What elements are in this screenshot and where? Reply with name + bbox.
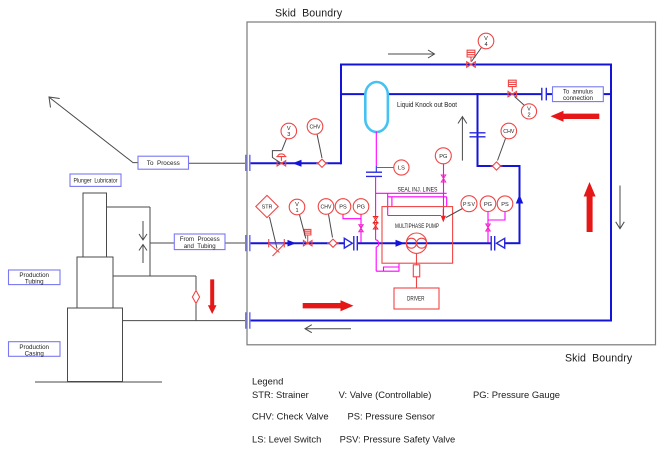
leader V1 [300,215,306,239]
ground line [35,381,162,383]
svg-text:PSV: Pressure Safety Valve: PSV: Pressure Safety Valve [340,434,456,445]
svg-text:Casing: Casing [25,350,45,357]
wire suction PG stem [360,214,362,242]
wire recycle drop x=477.5 [477,93,479,167]
valve V4 body [467,50,476,67]
svg-text:CHV: CHV [310,125,322,131]
leader PSV [446,209,463,218]
wire header drop 4 [446,197,448,207]
svg-text:connection: connection [563,95,593,102]
tag circle V1 [289,199,305,215]
svg-text:PS: Pressure Sensor: PS: Pressure Sensor [348,411,436,422]
injection point arrow into pump [442,209,444,217]
wire casing line to skid [123,320,247,322]
flow arrow right on suction line [288,240,297,247]
svg-text:CHV: Check Valve: CHV: Check Valve [252,411,329,422]
box From Process and Tubing [174,234,225,250]
svg-text:STR: Strainer: STR: Strainer [252,389,309,400]
wire lubricator to riser [107,206,151,208]
suction reducer cone [344,238,352,248]
wire right downcomer x=611 [610,64,612,322]
tag circle PS discharge [497,196,513,212]
box To Process [138,156,189,169]
arrow down (right side) [619,186,621,229]
box To annulus connection [553,87,604,102]
wire header drop 1 [387,193,389,215]
svg-text:DRIVER: DRIVER [407,296,425,303]
wire annulus flange to box [547,93,553,95]
check valve diamond on tubing drop [192,291,199,304]
wire header drop 2 [391,197,393,207]
flow arrow up on discharge riser [516,195,523,204]
svg-text:Legend: Legend [252,376,283,387]
tag circle PG top [435,148,451,164]
skid flange at to-process crossing [246,155,250,171]
wire From-Process box to skid edge [225,242,246,244]
flange pair at discharge expander [491,236,495,251]
wire to-process line (inside skid) [250,162,341,164]
svg-text:PS: PS [339,205,347,211]
wire header drop 3 [443,193,445,216]
svg-text:and Tubing: and Tubing [184,243,217,250]
leader V3 [282,139,287,151]
valve double-X on boot drain [373,217,377,230]
svg-text:PG: PG [439,154,447,160]
box Production Tubing [9,270,61,285]
svg-text:Liquid Knock out Boot: Liquid Knock out Boot [397,102,457,109]
wire pipe jump over suction line [376,240,379,247]
skid boundary rectangle [247,22,656,345]
wire pump internal injection line [388,215,441,217]
arrow to flare (diagonal up-left) [50,98,139,163]
leader CHV (to-process) [317,134,322,158]
box Plunger Lubricator [70,174,121,186]
check valve CHV diamond on recycle line [492,162,500,170]
wire riser vertical [149,207,151,276]
svg-text:1: 1 [295,208,298,214]
check valve CHV stub on recycle line [491,165,503,167]
wire suction through pump [358,242,492,244]
leader CHV (suction) [329,214,333,237]
liquid knock out boot vessel [365,82,388,132]
wire boot drain blue segment [375,166,377,172]
valve V2 body [508,80,517,97]
red arrow right (bottom) [303,300,354,311]
svg-text:V: Valve (Controllable): V: Valve (Controllable) [339,389,432,400]
coupling block [413,265,419,277]
wire return loop notch [384,267,400,271]
tag circle PG suction [353,199,369,215]
flange pair at suction reducer [354,236,358,251]
wire tubing outlet horizontal [113,275,196,277]
arrow up (beside boot) [461,117,463,161]
wire boot outlet to tee [388,93,479,95]
wire LS leader [376,167,393,169]
valve X on suction PG stem [359,225,363,232]
wire suction PS leader [343,214,361,218]
wire To-Process box to skid edge [189,162,247,164]
check valve CHV stub on to-process line [316,162,328,164]
svg-text:STR: STR [262,205,273,211]
tag circle PG discharge [480,196,496,212]
pump circle [406,233,426,253]
black hook at valve V3 [272,151,281,163]
wellhead lubricator tube [83,193,107,257]
arrow up (lubricator) [142,245,144,264]
wire tubing drop vertical [195,276,197,321]
box Production Casing [9,342,61,357]
tag circle V3 [281,123,297,139]
wire discharge PS leader [488,212,505,220]
flange pair before annulus box [542,88,547,101]
svg-text:Skid Boundry: Skid Boundry [275,8,343,20]
svg-text:PG: PG [484,202,492,208]
svg-text:CHV: CHV [503,129,515,135]
leader V4 [472,48,482,62]
wire seal header lower line [388,196,447,198]
tag circle V4 [478,33,494,49]
svg-text:To Process: To Process [147,160,180,167]
skid flange at bottom inlet crossing [246,312,250,328]
leader STR [270,217,278,249]
driver box [394,288,439,309]
leader CHV (recycle) [498,139,506,161]
wire discharge after expander [505,242,521,244]
svg-text:MULTIPHASE PUMP: MULTIPHASE PUMP [395,223,439,230]
wire bottom inlet line [250,320,612,322]
wellhead tubing head spool [77,257,113,308]
wire discharge PG stem [487,212,489,243]
valve X on discharge PG stem [486,224,490,231]
svg-text:LS: LS [398,166,405,172]
tag circle CHV to-process [307,119,323,135]
svg-text:SEAL INJ. LINES: SEAL INJ. LINES [398,187,438,194]
svg-text:Tubing: Tubing [25,279,44,286]
wire drain to return loop [375,247,377,271]
tag circle V2 [521,104,536,119]
wire drain below spectacle to header [375,176,377,218]
wire riser to From-Process box [150,242,174,244]
red arrow up (right side) [584,182,596,232]
pump shaft upper [416,253,418,264]
tag circle PSV [461,196,477,212]
svg-text:PG: Pressure Gauge: PG: Pressure Gauge [473,389,560,400]
tag circle CHV suction [318,199,334,215]
spectacle blind on boot drain [366,172,382,176]
tag circle LS [394,160,409,175]
check valve CHV stub on suction line [327,242,339,244]
pump lobe left [406,238,416,248]
wire boot inlet [341,93,366,95]
arrow right (top of skid) [388,53,434,55]
svg-text:CHV: CHV [321,205,333,211]
pump shaft lower [416,277,418,288]
strainer ticks and basket [269,239,285,256]
wire discharge riser x=519.5 [519,165,521,243]
tag circle PS suction [335,199,351,215]
red arrow left (annulus) [551,111,600,122]
wire top header line [340,64,612,66]
svg-text:PS: PS [501,202,509,208]
wire boot drain stem [375,132,377,167]
flow arrow right into pump [396,240,405,247]
pump lobe right [417,238,427,248]
arrow left (bottom line) [306,328,351,330]
check valve CHV diamond on suction line [329,239,337,247]
wire return loop bottom [376,264,399,272]
pump casing box [382,207,453,264]
tag diamond STR [256,195,278,217]
wire seal header upper line [376,192,447,194]
svg-text:2: 2 [527,112,530,118]
arrow down (lubricator) [142,221,144,240]
wire tee to V2 and annulus flange [479,93,542,95]
wire drain header to pipe jump [375,227,377,240]
valve V1 body [303,229,312,246]
skid flange at suction crossing [246,235,250,251]
valve V3 body [276,154,286,166]
svg-text:PSV: PSV [463,202,476,208]
wire annulus box to right downcomer [603,93,612,95]
discharge expander cone [497,238,505,248]
leader V2 [515,97,525,106]
red arrow down (tubing drop) [208,279,217,314]
svg-text:3: 3 [287,132,290,138]
svg-text:4: 4 [484,42,487,48]
wire suction line [250,242,345,244]
svg-text:LS: Level Switch: LS: Level Switch [252,434,321,445]
tag circle CHV recycle [501,123,517,139]
check valve CHV diamond on to-process line [318,159,326,167]
wire riser left vertical x=341 [340,64,342,165]
svg-text:Skid Boundry: Skid Boundry [565,353,633,365]
wire recycle horizontal y=166 [478,165,521,167]
flow arrow left on to-process line [293,160,302,167]
wire PG top stem [443,164,445,194]
spectacle blind on recycle drop [470,133,486,137]
wellhead casing head base [68,308,123,382]
valve X on PG top stem [441,175,445,182]
svg-text:Plunger Lubricator: Plunger Lubricator [74,177,118,184]
svg-text:PG: PG [357,205,365,211]
